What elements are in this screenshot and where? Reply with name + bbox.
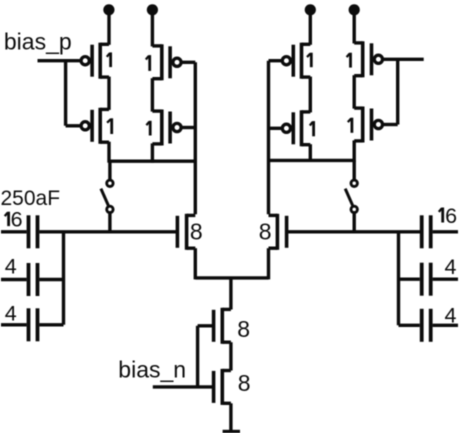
pmos M6 [282, 110, 310, 146]
ground [223, 430, 240, 433]
pmos M7 [354, 41, 382, 77]
node OUTL vertical [194, 62, 197, 214]
wire gate M6 to node OUTR [269, 127, 283, 130]
wire cap bus left [62, 232, 65, 325]
wire [194, 248, 197, 279]
wire gate link [196, 326, 199, 387]
node OUTR vertical [267, 61, 270, 215]
switch S2 [345, 160, 357, 231]
wire [396, 59, 399, 124]
svg-text:bias_n: bias_n [118, 357, 186, 383]
value 1 (M2) [107, 118, 112, 134]
capacitor C1 (16) [1, 215, 38, 248]
wire tail drop [229, 278, 232, 310]
wire [309, 144, 312, 162]
wire tail rail [195, 276, 268, 279]
nmos M12 [214, 369, 231, 405]
wire gate M3 to node OUTL [181, 61, 195, 64]
svg-text:250aF: 250aF [1, 187, 61, 210]
wire [309, 77, 312, 113]
pmos M5 [282, 43, 310, 79]
wire gate M11 [198, 324, 214, 327]
capacitor C5 (4) [399, 263, 459, 296]
wire [229, 342, 232, 370]
svg-text:bias_p: bias_p [4, 29, 72, 55]
pmos M8 [354, 107, 382, 143]
wire gate M8 [382, 123, 397, 126]
svg-text:6: 6 [445, 204, 457, 228]
capacitor C6 (4) [399, 309, 459, 342]
svg-text:4: 4 [445, 255, 457, 279]
value 1 (M1) [107, 52, 111, 67]
supply dot VDD4 [349, 4, 360, 15]
capacitor C3 (4) [1, 308, 64, 341]
wire node right (gate M10 to caps) [287, 230, 422, 233]
nmos M11 [214, 308, 231, 344]
wire [151, 78, 154, 111]
capacitor C2 (4) [1, 263, 64, 296]
wire rail left [109, 159, 195, 162]
wire bias_p [38, 59, 82, 62]
svg-text:4: 4 [5, 302, 17, 326]
value 1 (M8) [348, 118, 352, 133]
nmos M9 [177, 214, 195, 250]
value 1 (M5) [307, 53, 311, 67]
wire [267, 248, 270, 279]
label 16 left [5, 207, 23, 231]
switch S1 [101, 161, 113, 232]
supply dot VDD3 [305, 4, 316, 15]
value 1 (M3) [146, 55, 150, 71]
wire gate M4 to node OUTL [181, 126, 195, 129]
wire [151, 143, 154, 162]
svg-text:8: 8 [259, 219, 272, 245]
wire [107, 77, 110, 110]
svg-text:8: 8 [238, 370, 251, 396]
wire gate M7 right [382, 58, 423, 61]
svg-text:8: 8 [237, 316, 250, 342]
svg-text:8: 8 [190, 219, 203, 245]
pmos M1 [81, 43, 109, 79]
nmos M10 [269, 214, 287, 250]
pmos M2 [81, 108, 109, 144]
wire [107, 10, 110, 45]
label 16 right [439, 204, 457, 228]
wire [64, 61, 67, 126]
wire [66, 124, 82, 127]
wire bias_n [153, 385, 214, 388]
pmos M3 [152, 44, 181, 80]
wire rail right [269, 159, 355, 162]
wire [353, 75, 356, 108]
supply dot VDD1 [103, 4, 114, 15]
svg-text:4: 4 [5, 254, 17, 278]
wire [107, 142, 110, 163]
wire [151, 10, 154, 47]
wire [229, 403, 232, 430]
wire [353, 140, 356, 162]
value 1 (M7) [347, 53, 351, 68]
value 1 (M4) [146, 121, 150, 136]
value 1 (M6) [310, 121, 314, 136]
supply dot VDD2 [147, 4, 158, 15]
wire gate M5 to node OUTR [269, 59, 283, 62]
svg-text:6: 6 [11, 207, 23, 231]
pmos M4 [152, 110, 181, 146]
wire node left (caps to gate M9) [39, 230, 177, 233]
capacitor C4 (16) [422, 215, 458, 248]
wire [309, 10, 312, 45]
wire [353, 10, 356, 44]
wire cap bus right [397, 232, 400, 325]
